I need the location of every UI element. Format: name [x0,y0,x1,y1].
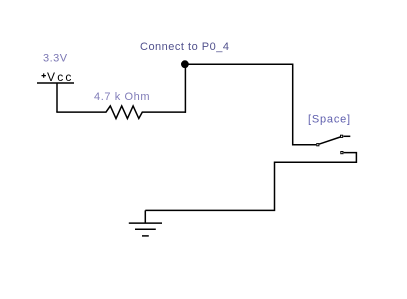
svg-text:[Space]: [Space] [308,114,351,126]
svg-text:Vcc: Vcc [47,70,74,84]
switch SW1 common contact [317,144,319,146]
svg-text:4.7 k Ohm: 4.7 k Ohm [94,91,150,103]
switch SW1 upper throw contact [341,135,343,137]
wire node to right [186,64,316,145]
ground bar short [142,235,149,237]
switch SW1 lower throw contact [341,152,343,154]
wire Vcc down to resistor row [56,83,58,112]
wire from upper throw [343,135,350,137]
wire resistor up to node [184,64,186,113]
ground stub [144,210,146,223]
resistor R1 with wires [56,106,186,119]
ground bar long [129,222,162,224]
wire lower throw to ground run [145,153,356,211]
power symbol +Vcc [37,70,74,84]
svg-text:3.3V: 3.3V [43,53,68,65]
switch SW1 arm [319,137,340,144]
ground bar middle [135,228,156,230]
svg-text:Connect to P0_4: Connect to P0_4 [140,41,229,53]
node junction dot [181,60,189,68]
